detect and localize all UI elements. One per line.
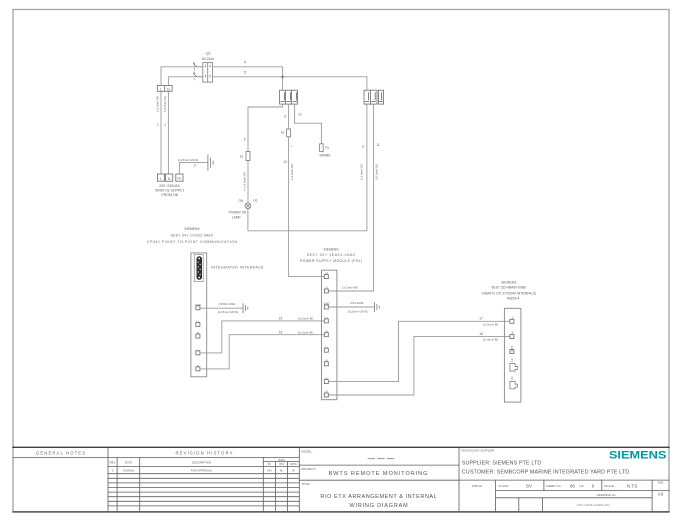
svg-text:6ES7 153-4BA00-0XB0: 6ES7 153-4BA00-0XB0 <box>492 286 527 290</box>
svg-text:SIZE: SIZE <box>658 482 664 485</box>
svg-text:1x1.5mm² BU: 1x1.5mm² BU <box>374 164 378 180</box>
wire 2 (N) down to supply <box>167 91 169 174</box>
ground PS1 symbol <box>375 302 380 312</box>
svg-text:SIMATIC DP, ET200M INTERFACE: SIMATIC DP, ET200M INTERFACE <box>482 291 537 295</box>
svg-text:INTEGRATED INTERFACE: INTEGRATED INTERFACE <box>211 265 264 269</box>
supply source label <box>155 184 185 197</box>
svg-text:SCALE:: SCALE: <box>604 484 615 488</box>
wire 11 from X2:2 to PS1 N <box>329 104 374 291</box>
svg-text:GENERAL NOTES: GENERAL NOTES <box>36 450 85 455</box>
svg-text:GND: GND <box>510 346 514 352</box>
svg-text:L: L <box>160 177 162 181</box>
wire 8 from X1:2 to fuse F2 <box>288 104 290 129</box>
svg-text:3: 3 <box>194 163 196 167</box>
svg-text:JOB No.: JOB No. <box>472 484 484 488</box>
svg-text:POWER ON: POWER ON <box>229 210 247 214</box>
svg-text:DESCRIPTION: DESCRIPTION <box>192 460 211 464</box>
breaker Q1 <box>193 52 215 83</box>
svg-text:6: 6 <box>244 138 246 142</box>
revision history table <box>110 450 297 472</box>
supply terminal PE <box>176 174 183 181</box>
PS1 power supply box <box>322 270 337 400</box>
svg-text:10: 10 <box>283 160 287 164</box>
CP341 module U2 box <box>191 253 207 377</box>
svg-text:50/60 Hz SUPPLY: 50/60 Hz SUPPLY <box>155 189 185 193</box>
svg-text:1x2.5mm² GN/YE: 1x2.5mm² GN/YE <box>218 310 239 314</box>
svg-text:5: 5 <box>244 71 246 75</box>
svg-text:1x1.5mm² BK: 1x1.5mm² BK <box>483 322 499 326</box>
wire L from supply terminal up to breaker Q1 (wire 4 left) <box>161 67 196 86</box>
svg-text:ON: ON <box>239 199 244 203</box>
svg-text:P1: P1 <box>510 359 514 363</box>
svg-text:1x1.5mm² BU: 1x1.5mm² BU <box>163 96 167 112</box>
PS1 terminal M 3 <box>324 390 328 397</box>
PS1 terminal N <box>324 286 328 293</box>
ET200M terminal GND <box>510 346 514 354</box>
svg-text:6A 10kA: 6A 10kA <box>202 57 215 61</box>
D-sub connector on CP341 <box>194 255 203 282</box>
technology supplier cell <box>461 449 629 476</box>
fuse F3 SPARE <box>320 144 324 152</box>
svg-text:SIEMENS: SIEMENS <box>184 227 200 231</box>
svg-text:L+: L+ <box>196 348 199 352</box>
supply terminal L <box>157 174 164 181</box>
svg-text:DATE: DATE <box>125 460 132 464</box>
svg-text:TITLE:: TITLE: <box>301 482 310 486</box>
fuse F1 <box>246 152 250 161</box>
svg-text:1x1.5mm² BU: 1x1.5mm² BU <box>359 164 363 180</box>
ET200M interface box <box>504 308 521 402</box>
job class sheet scale row <box>472 482 664 508</box>
ground CP341 symbol <box>243 303 248 313</box>
svg-text:SHEET No.: SHEET No. <box>546 484 562 488</box>
svg-text:CP341 POINT-TO-POINT COMMUNICA: CP341 POINT-TO-POINT COMMUNICATION <box>147 240 238 244</box>
svg-text:1x1.5mm² BK: 1x1.5mm² BK <box>290 164 294 180</box>
model project title cells <box>301 449 437 509</box>
svg-text:1x1.5mm² BU: 1x1.5mm² BU <box>297 330 313 334</box>
CP341 terminal GND <box>195 303 201 310</box>
supply terminal N <box>166 174 173 181</box>
svg-text:FOR APPROVAL: FOR APPROVAL <box>191 469 213 473</box>
svg-text:7: 7 <box>244 189 246 193</box>
svg-text:PE: PE <box>178 176 182 180</box>
svg-text:12: 12 <box>298 112 302 116</box>
ET200M terminal L+ <box>510 316 514 323</box>
PS1 GND wire to earth <box>328 306 374 308</box>
svg-text:IM153-4: IM153-4 <box>507 297 520 301</box>
svg-text:H1: H1 <box>253 198 257 202</box>
wire 1 (L) down to supply <box>160 91 162 174</box>
wire from H1 to N line <box>247 209 249 231</box>
svg-text:SUPPLIER: SIEMENS PTE LTD: SUPPLIER: SIEMENS PTE LTD <box>462 460 542 466</box>
wire 3 PE to earth <box>179 163 208 174</box>
ET200M port P2 <box>510 377 518 389</box>
fuse F2 <box>287 129 291 137</box>
svg-text:16: 16 <box>279 330 283 334</box>
PS1 terminal L1 <box>324 271 328 278</box>
wire 18 PS1 M to ET200M M <box>328 337 510 395</box>
CP341 terminal 2 <box>196 320 200 327</box>
PS1 terminal GND <box>324 302 330 309</box>
svg-text:POWER SUPPLY MODULE (PS1): POWER SUPPLY MODULE (PS1) <box>300 259 362 263</box>
PS1 terminal M 2 <box>324 358 328 365</box>
ET200M port P1 <box>510 359 518 371</box>
svg-text:4: 4 <box>244 60 246 64</box>
svg-text:1x1.5mm² BK: 1x1.5mm² BK <box>156 96 160 112</box>
svg-text:N: N <box>168 177 171 181</box>
wire 9 / N line from X2:1 to H1 branch <box>248 104 367 231</box>
wire 12 from X1:3 to fuse F3 <box>295 104 322 144</box>
lamp H1 POWER ON <box>229 198 258 219</box>
svg-text:FROM DB: FROM DB <box>162 193 179 197</box>
svg-text:OF: OF <box>579 484 583 488</box>
svg-text:DRAWING No.: DRAWING No. <box>597 493 617 497</box>
svg-text:PROJECT:: PROJECT: <box>301 467 316 471</box>
svg-text:1x1.5mm² BK: 1x1.5mm² BK <box>298 317 314 321</box>
terminal block X1 <box>280 90 298 104</box>
svg-text:SIEMENS: SIEMENS <box>609 450 667 462</box>
svg-text:SIEMENS: SIEMENS <box>323 248 339 252</box>
svg-text:F1: F1 <box>240 155 244 159</box>
svg-text:-Q1: -Q1 <box>205 52 211 56</box>
svg-text:APPD: APPD <box>290 463 297 466</box>
svg-text:CP341 GND: CP341 GND <box>219 302 237 306</box>
svg-text:BY: BY <box>268 463 272 466</box>
terminal strip L N at top of supply <box>157 86 172 92</box>
CP341 terminal M <box>196 364 200 371</box>
wire 6 from X1:1 to fuse F1 <box>248 104 283 151</box>
svg-text:BWTS REMOTE MONITORING: BWTS REMOTE MONITORING <box>329 471 428 477</box>
svg-text:PS1-GND: PS1-GND <box>350 301 364 305</box>
PS1 module label <box>300 248 362 263</box>
ET200M module label <box>482 280 537 300</box>
node junction on wire 5 <box>281 76 283 78</box>
svg-text:MODEL:: MODEL: <box>301 449 313 453</box>
svg-text:SIEMENS: SIEMENS <box>501 280 517 284</box>
svg-text:GH: GH <box>267 469 271 473</box>
svg-text:F3: F3 <box>325 146 329 150</box>
wire 15 CP341 L+ to PS1 L+ <box>200 321 324 353</box>
svg-text:18: 18 <box>479 332 483 336</box>
wire 5 from Q1 to terminal block X2 <box>213 77 367 90</box>
svg-text:P2: P2 <box>510 377 514 381</box>
svg-text:220~230VAC: 220~230VAC <box>159 184 181 188</box>
PS1 terminal M 1 <box>324 329 328 336</box>
wire 17 PS1 L+ to ET200M L+ <box>328 321 510 381</box>
terminal block X2 <box>364 90 384 104</box>
wire N from supply terminal up to breaker Q1 (wire 5 left) <box>168 77 196 86</box>
svg-text:M: M <box>197 364 199 368</box>
svg-text:LAMP: LAMP <box>232 215 241 219</box>
svg-text:SPARE: SPARE <box>319 153 331 157</box>
svg-text:CHK: CHK <box>279 463 285 466</box>
svg-text:1x2.5mm² GN/YE: 1x2.5mm² GN/YE <box>178 158 199 162</box>
svg-text:8: 8 <box>284 115 286 119</box>
CP341 terminal 3 <box>196 331 200 338</box>
svg-text:06: 06 <box>570 483 575 488</box>
svg-text:11: 11 <box>376 143 380 147</box>
svg-text:1x1.5mm² BK: 1x1.5mm² BK <box>342 285 358 289</box>
svg-text:6ES7 307-1EA01-0AA0: 6ES7 307-1EA01-0AA0 <box>307 253 355 257</box>
PS1 terminal L+ 2 <box>324 345 328 352</box>
svg-text:1: 1 <box>157 123 159 127</box>
svg-text:N.T.S: N.T.S <box>627 483 637 488</box>
CP341 module label <box>147 227 238 244</box>
CP341 GND wire to earth <box>200 307 243 309</box>
svg-text:2: 2 <box>164 123 166 127</box>
svg-text:REV: REV <box>110 460 116 464</box>
svg-text:RIO ETX ARRANGEMENT & INTERNAL: RIO ETX ARRANGEMENT & INTERNAL <box>320 494 436 500</box>
svg-text:WIRING DIAGRAM: WIRING DIAGRAM <box>350 503 409 509</box>
svg-text:1x1.5mm² BU: 1x1.5mm² BU <box>483 338 499 342</box>
svg-text:17: 17 <box>479 317 483 321</box>
ground PE symbol <box>208 155 213 171</box>
svg-text:M: M <box>197 331 199 335</box>
wire 10 from F2 to PS1 L1 <box>289 137 325 277</box>
svg-text:L: L <box>160 87 162 91</box>
svg-text:15: 15 <box>279 316 283 320</box>
svg-text:KL: KL <box>280 469 284 473</box>
svg-text:L+: L+ <box>196 320 199 324</box>
svg-text:TECHNOLOGY SUPPLIER: TECHNOLOGY SUPPLIER <box>461 449 494 453</box>
svg-text:22R-G0006-232E06-001: 22R-G0006-232E06-001 <box>577 503 610 507</box>
svg-text:BV: BV <box>526 483 532 488</box>
PS1 terminal L+ 1 <box>324 316 328 323</box>
wire 16 CP341 M to PS1 M <box>200 335 324 369</box>
svg-text:1x2.5mm² GN/YE: 1x2.5mm² GN/YE <box>347 309 368 313</box>
svg-text:24/09/20: 24/09/20 <box>123 469 134 473</box>
svg-text:REVISION HISTORY: REVISION HISTORY <box>176 450 233 455</box>
PS1 terminal L+ 3 <box>324 376 328 383</box>
svg-text:N: N <box>167 87 170 91</box>
wire 4 from Q1 to terminal block X1 <box>213 67 283 90</box>
svg-text:CUSTOMER: SEMBCORP MARINE INTE: CUSTOMER: SEMBCORP MARINE INTEGRATED YAR… <box>462 470 629 476</box>
svg-text:F2: F2 <box>281 131 285 135</box>
ET200M terminal M <box>510 332 514 339</box>
svg-text:9: 9 <box>362 145 364 149</box>
wire 7 from F1 to lamp H1 <box>247 161 249 203</box>
svg-text:JF: JF <box>292 469 295 473</box>
CP341 terminal L+ <box>196 348 200 355</box>
svg-text:CLASS:: CLASS: <box>498 484 509 488</box>
svg-text:M: M <box>510 332 514 334</box>
svg-text:L+: L+ <box>510 316 514 319</box>
svg-text:SCM: SCM <box>278 458 285 462</box>
svg-text:1x1.5mm² BK: 1x1.5mm² BK <box>243 172 247 188</box>
svg-text:A3: A3 <box>658 492 664 497</box>
svg-text:6ES7 341-1CH02-0AE0: 6ES7 341-1CH02-0AE0 <box>171 234 213 238</box>
